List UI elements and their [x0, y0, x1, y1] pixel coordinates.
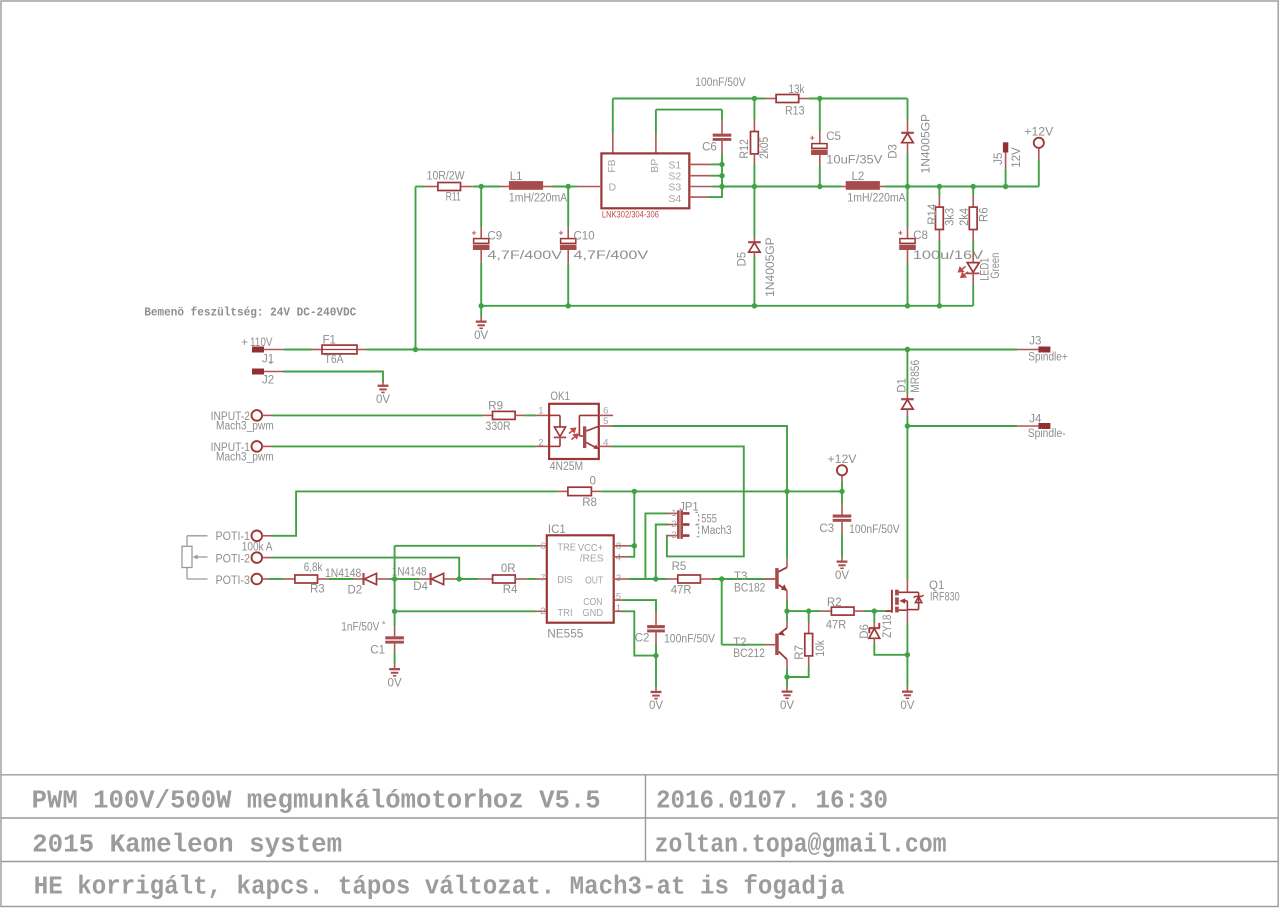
svg-text:R7: R7	[794, 645, 806, 660]
svg-text:Mach3: Mach3	[701, 525, 731, 537]
svg-text:C9: C9	[487, 231, 502, 243]
svg-text:0V: 0V	[376, 394, 390, 406]
svg-text:0V: 0V	[780, 700, 794, 712]
svg-text:PWM 100V/500W megmunkálómotorh: PWM 100V/500W megmunkálómotorhoz V5.5	[32, 786, 601, 815]
svg-text:2: 2	[540, 606, 545, 617]
svg-text:-: -	[269, 357, 273, 369]
svg-text:2015 Kameleon system: 2015 Kameleon system	[32, 830, 342, 859]
svg-text:1N4148: 1N4148	[392, 567, 427, 579]
svg-text:zoltan.topa@gmail.com: zoltan.topa@gmail.com	[655, 830, 947, 859]
svg-text:T6A: T6A	[325, 354, 344, 366]
svg-text:10k: 10k	[815, 640, 827, 657]
svg-text:IRF830: IRF830	[930, 591, 960, 603]
svg-text:D6: D6	[859, 624, 871, 639]
svg-text:D: D	[609, 181, 617, 193]
svg-text:T3: T3	[734, 571, 747, 583]
svg-text:1N4005GP: 1N4005GP	[765, 237, 777, 297]
svg-text:0R: 0R	[501, 563, 516, 575]
svg-text:47R: 47R	[826, 619, 846, 631]
svg-text:C10: C10	[574, 231, 595, 243]
svg-text:3: 3	[671, 530, 676, 541]
svg-text:J4: J4	[1029, 414, 1042, 426]
svg-text:J3: J3	[1029, 335, 1041, 347]
svg-text:1mH/220mA: 1mH/220mA	[847, 193, 906, 205]
svg-text:JP1: JP1	[679, 501, 698, 513]
svg-text:Spindle-: Spindle-	[1028, 428, 1066, 440]
svg-text:R14: R14	[927, 203, 939, 225]
svg-text:D5: D5	[736, 252, 748, 267]
svg-text:13k: 13k	[789, 84, 805, 96]
svg-text:2k4: 2k4	[959, 207, 971, 226]
svg-text:+: +	[559, 227, 564, 237]
svg-text:MR856: MR856	[910, 360, 922, 393]
svg-text:4,7F/400V: 4,7F/400V	[487, 250, 562, 262]
svg-text:D1: D1	[897, 378, 909, 393]
svg-text:C1: C1	[370, 644, 385, 656]
svg-text:+: +	[810, 132, 815, 142]
svg-text:1: 1	[671, 508, 676, 519]
svg-text:R13: R13	[785, 106, 805, 118]
svg-text:C6: C6	[702, 142, 717, 154]
svg-text:*: *	[382, 619, 386, 629]
svg-text:4,7F/400V: 4,7F/400V	[574, 250, 649, 262]
svg-text:555: 555	[701, 513, 717, 525]
svg-text:0V: 0V	[388, 677, 402, 689]
svg-text:LNK302/304-306: LNK302/304-306	[602, 210, 659, 221]
svg-text:C2: C2	[635, 633, 650, 645]
svg-text:IC1: IC1	[548, 524, 566, 536]
svg-text:47R: 47R	[671, 585, 692, 597]
svg-text:OK1: OK1	[550, 391, 570, 403]
svg-text:110V: 110V	[250, 337, 273, 349]
svg-text:4N25M: 4N25M	[550, 461, 583, 473]
svg-text:0: 0	[590, 475, 596, 487]
svg-text:100nF/50V: 100nF/50V	[695, 77, 746, 89]
svg-text:6: 6	[540, 541, 545, 552]
svg-text:R4: R4	[503, 584, 518, 596]
svg-text:L1: L1	[510, 171, 523, 183]
svg-text:R8: R8	[582, 497, 597, 509]
svg-text:1: 1	[538, 406, 543, 417]
svg-text:2: 2	[671, 519, 676, 530]
svg-text:Mach3_pwm: Mach3_pwm	[216, 452, 274, 464]
svg-text:1nF/50V: 1nF/50V	[341, 622, 379, 634]
svg-text:1N4148: 1N4148	[325, 568, 361, 580]
svg-text:0V: 0V	[474, 330, 488, 342]
svg-text:1N4005GP: 1N4005GP	[921, 114, 933, 174]
svg-text:Bemenö feszültség: 24V DC-240V: Bemenö feszültség: 24V DC-240VDC	[144, 305, 356, 319]
svg-text:Q1: Q1	[929, 580, 944, 592]
svg-text:100nF/50V: 100nF/50V	[664, 633, 715, 645]
svg-text:POTI-3: POTI-3	[216, 575, 251, 587]
svg-text:D4: D4	[413, 581, 428, 593]
svg-text:C3: C3	[819, 523, 834, 535]
svg-text:R11: R11	[446, 191, 461, 203]
svg-text:1: 1	[616, 603, 621, 614]
svg-text:+12V: +12V	[828, 454, 857, 466]
svg-text:J5: J5	[993, 153, 1005, 165]
svg-text:2: 2	[538, 437, 543, 448]
svg-text:C5: C5	[826, 131, 841, 143]
svg-text:3k3: 3k3	[945, 208, 957, 226]
svg-text:100nF/50V: 100nF/50V	[849, 524, 900, 536]
svg-text:0V: 0V	[835, 570, 849, 582]
svg-text:BC182: BC182	[734, 582, 765, 594]
svg-text:OUT: OUT	[585, 575, 603, 587]
svg-text:R2: R2	[827, 597, 842, 609]
svg-text:C8: C8	[913, 230, 928, 242]
svg-text:+: +	[241, 337, 248, 349]
svg-text:1mH/220mA: 1mH/220mA	[509, 193, 568, 205]
svg-text:BC212: BC212	[733, 648, 765, 660]
svg-text:10R/2W: 10R/2W	[427, 170, 465, 182]
svg-text:D3: D3	[888, 144, 900, 159]
svg-text:GND: GND	[582, 607, 603, 619]
svg-text:7: 7	[540, 573, 545, 584]
svg-text:0V: 0V	[649, 700, 663, 712]
svg-text:/RES: /RES	[580, 552, 604, 564]
svg-text:2016.0107. 16:30: 2016.0107. 16:30	[656, 786, 888, 815]
svg-text:F1: F1	[323, 335, 336, 347]
svg-text:Green: Green	[990, 253, 1002, 279]
svg-text:R6: R6	[978, 207, 990, 222]
svg-text:12V: 12V	[1011, 147, 1023, 168]
svg-text:330R: 330R	[486, 421, 511, 433]
svg-text:R9: R9	[488, 400, 503, 412]
svg-text:D2: D2	[348, 584, 363, 596]
svg-text:2k05: 2k05	[759, 137, 771, 159]
svg-text:R3: R3	[310, 583, 325, 595]
svg-text:6,8k: 6,8k	[304, 562, 323, 574]
svg-text:R12: R12	[739, 139, 751, 159]
svg-text:4: 4	[616, 552, 621, 563]
svg-text:10uF/35V: 10uF/35V	[826, 154, 883, 166]
svg-text:DIS: DIS	[557, 574, 572, 586]
svg-text:S4: S4	[668, 193, 681, 205]
svg-text:TRI: TRI	[557, 607, 572, 619]
svg-text:HE korrigált, kapcs. tápos vál: HE korrigált, kapcs. tápos változat. Mac…	[34, 872, 845, 901]
svg-text:0V: 0V	[900, 700, 914, 712]
svg-text:ZY18: ZY18	[882, 615, 894, 638]
svg-text:R5: R5	[672, 561, 687, 573]
svg-text:POTI-2: POTI-2	[216, 553, 251, 565]
svg-text:+12V: +12V	[1024, 126, 1053, 138]
svg-text:+: +	[472, 227, 477, 237]
svg-text:BP: BP	[649, 159, 661, 173]
svg-text:FB: FB	[606, 159, 618, 172]
svg-text:TRE: TRE	[557, 541, 576, 553]
svg-text:J2: J2	[262, 375, 274, 387]
svg-text:NE555: NE555	[547, 629, 583, 641]
svg-text:L2: L2	[852, 171, 865, 183]
svg-text:+: +	[898, 227, 903, 237]
svg-text:Spindle+: Spindle+	[1028, 352, 1068, 364]
svg-text:Mach3_pwm: Mach3_pwm	[216, 421, 274, 433]
